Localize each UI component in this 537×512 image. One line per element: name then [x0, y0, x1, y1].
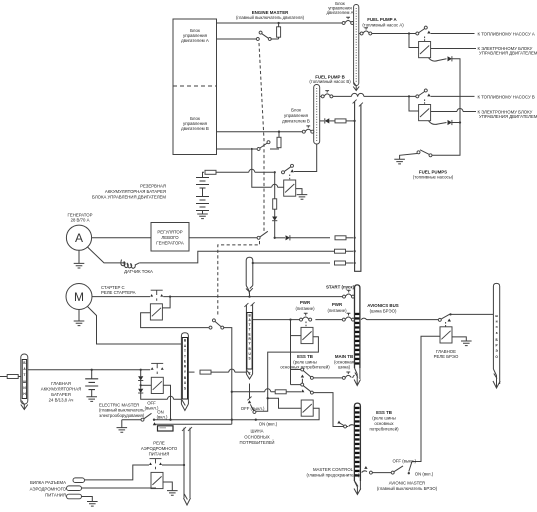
ground GND2 (reserve battery) [197, 214, 208, 219]
fuse F4 (vertical chain) [273, 172, 277, 216]
diode D6 [138, 370, 143, 381]
label PWR left [295, 300, 315, 311]
bus A bottom arrow [353, 83, 359, 91]
battery B1 reserve [196, 178, 209, 215]
svg-text:двигателем А: двигателем А [326, 10, 353, 15]
wire ECU-B out1 [217, 131, 303, 133]
wire V1 to ESS relay left [268, 398, 302, 408]
wire diode to row1 [274, 221, 276, 238]
diode D1 [448, 56, 452, 61]
svg-text:РЕЛЕ: РЕЛЕ [153, 441, 165, 446]
svg-text:РЕГУЛЯТОР: РЕГУЛЯТОР [157, 229, 182, 234]
svg-text:ESS TB: ESS TB [297, 354, 313, 359]
relay K6 (avionics relay) [440, 327, 452, 343]
svg-text:(вкл.): (вкл.) [157, 414, 168, 419]
wire contact to START switch [163, 296, 344, 298]
svg-text:ШИНА: ШИНА [251, 429, 264, 434]
svg-text:OFF (выкл.): OFF (выкл.) [392, 458, 416, 463]
label generator [68, 213, 93, 223]
label К ЭЛЕКТРОННОМУ БЛОКУ B [478, 109, 537, 118]
label СТАРТЕР С РЕЛЕ СТАРТЕРА [101, 285, 136, 295]
wire short bus to row3 [253, 262, 330, 264]
wire starter to ground [78, 310, 80, 322]
contact K7a (battery relay contact) [151, 363, 164, 374]
wire P1 to relay left [291, 335, 302, 337]
wire contact to tap [162, 464, 184, 466]
switch S3 fuel pump A feed [360, 28, 372, 35]
svg-text:(топливные насосы): (топливные насосы) [413, 175, 454, 180]
switch feed bracket [291, 320, 303, 385]
switch S19 (MAIN TB in) [342, 372, 354, 379]
svg-text:двигателем В: двигателем В [181, 126, 209, 131]
svg-text:ГЕНЕРАТОРА: ГЕНЕРАТОРА [156, 240, 184, 245]
hop over relay drop [168, 396, 174, 399]
diode D5 (pump B backfeed) [320, 118, 330, 123]
svg-text:БАТАРЕЯ: БАТАРЕЯ [51, 392, 70, 397]
junction node R4 [353, 262, 355, 264]
wire bar2 to PWR row [253, 319, 300, 321]
label bus A: Блок управления двигателем А [326, 1, 353, 15]
switch S18 (MAIN feed row) [301, 368, 314, 379]
plug pin 1 [73, 478, 85, 483]
junction battery tap [91, 369, 93, 371]
wire switch to fuse [271, 38, 279, 40]
svg-text:шина): шина) [338, 365, 351, 370]
ground GND7 (main battery) [86, 397, 97, 402]
wire relay right to ON wire [256, 408, 319, 419]
junction fuse top A [277, 22, 279, 24]
avionics bus (шина БРЭО) [493, 283, 500, 388]
junction node A1 [408, 32, 410, 34]
ON terminal bar2 [255, 419, 257, 421]
wire between diodes to relay [141, 384, 152, 386]
svg-text:ESS TB: ESS TB [376, 410, 392, 415]
switch S2 to bus A [342, 17, 354, 24]
svg-text:АЭРОДРОМНОГО: АЭРОДРОМНОГО [141, 446, 178, 451]
contact K8a (aerodrome relay contact) [149, 459, 162, 470]
wire diode B to vertical [452, 94, 460, 152]
switch S14 PWR left [300, 313, 312, 321]
svg-text:БЛОКА УПРАВЛЕНИЯ ДВИГАТЕЛЕМ: БЛОКА УПРАВЛЕНИЯ ДВИГАТЕЛЕМ [92, 194, 166, 199]
svg-text:(питание): (питание) [327, 308, 347, 313]
svg-text:28 В/70 А: 28 В/70 А [71, 218, 90, 223]
svg-text:К ТОПЛИВНОМУ НАСОСУ В: К ТОПЛИВНОМУ НАСОСУ В [478, 94, 535, 99]
fuse F11 (framed) [158, 426, 174, 431]
wire ECU-A out2 [217, 38, 258, 40]
wire relay K3 to ground [296, 189, 302, 195]
ground GND9 [167, 491, 178, 496]
label ГЛАВНОЕ РЕЛЕ БРЭО [434, 349, 459, 359]
MAIN TB bus (hatched) [354, 285, 360, 386]
relay K3 (engine B) [284, 180, 296, 196]
ground GND5 [74, 321, 85, 326]
wire to fuel pump B label [431, 95, 475, 97]
generator G1 [66, 225, 91, 250]
ground GND8 (electric master) [117, 420, 128, 433]
wire starter row [92, 296, 150, 298]
svg-text:24 В/13,8 Ач: 24 В/13,8 Ач [49, 397, 74, 402]
svg-text:ПИТАНИЯ: ПИТАНИЯ [45, 493, 66, 498]
label FUEL PUMPS [413, 170, 454, 180]
bus A (engine A bus) [354, 5, 359, 86]
svg-text:основных потребителей): основных потребителей) [280, 365, 330, 370]
svg-text:ГЛАВНАЯ: ГЛАВНАЯ [51, 381, 71, 386]
svg-text:ГЛАВНОЕ: ГЛАВНОЕ [436, 349, 456, 354]
wire ECU-A out1 [217, 22, 344, 24]
switch ENGINE MASTER S1 [256, 31, 271, 40]
plug pin 2 [67, 486, 82, 491]
fuse F2 [277, 137, 281, 147]
junction node R5 [353, 120, 355, 122]
regulator box U2 [151, 223, 189, 252]
svg-text:УПРАВЛЕНИЯ ДВИГАТЕЛЕМ: УПРАВЛЕНИЯ ДВИГАТЕЛЕМ [479, 114, 537, 119]
wire relay A to ECU label [431, 48, 476, 50]
label MAIN TB [334, 354, 355, 370]
wire ECU-B out2 [217, 148, 251, 150]
wire bus B bottom to switch [294, 144, 317, 172]
svg-text:AVIONIC MASTER: AVIONIC MASTER [389, 481, 425, 486]
junction node P1 [289, 318, 291, 320]
junction diode branch [140, 369, 142, 371]
wire relay K4 right to starter wire [162, 297, 170, 308]
svg-text:АККУМУЛЯТОРНАЯ: АККУМУЛЯТОРНАЯ [41, 386, 81, 391]
wire relay right to ground [452, 337, 466, 341]
wire PWR row mid [315, 319, 342, 321]
svg-text:управления: управления [284, 113, 309, 118]
wire battery bus to fuse row [188, 371, 194, 373]
label ВИЛКА РАЗЪЕМА [30, 480, 67, 498]
svg-text:(главный предохранитель): (главный предохранитель) [306, 472, 360, 477]
junction node C1 [251, 148, 253, 150]
wire relay right to V1 branch [256, 337, 318, 412]
fuse F6 row2 [335, 249, 346, 253]
wire battery to fuse F3 [203, 172, 205, 177]
junction node R2 [353, 237, 355, 239]
fuse F1 [277, 27, 281, 37]
wire drop to relay A [409, 34, 419, 48]
wire interlock to down run [223, 328, 232, 425]
junction bar2 feed [248, 295, 250, 297]
svg-text:двигателем В: двигателем В [282, 119, 310, 124]
svg-text:ПОТРЕБИТЕЛЕЙ: ПОТРЕБИТЕЛЕЙ [240, 440, 275, 445]
main distribution bus (rect bus) [353, 100, 363, 272]
relay K5 (PWR relay) [301, 327, 313, 343]
vertical wire from C1 down [252, 149, 284, 187]
hop over fuse chain [272, 184, 278, 187]
continuation lines (to loads) [182, 427, 192, 505]
wire generator to regulator [92, 237, 151, 239]
contact K4a (starter relay contact) [150, 290, 163, 301]
wire drop to relay B [409, 96, 419, 111]
junction aerodrome tap [183, 464, 185, 466]
ground GND6 [461, 341, 472, 346]
junction node C2 [274, 171, 276, 173]
wire relay K4 loop to interlock switch [141, 313, 209, 328]
label К ЭЛЕКТРОННОМУ БЛОКУ A [478, 46, 537, 55]
relay K8 (aerodrome) [151, 472, 163, 488]
label ENGINE MASTER [236, 10, 305, 20]
relay K7 (battery relay coil) [151, 377, 163, 393]
label ESS TB (right block) [369, 410, 399, 432]
wire relay B to diode [429, 121, 447, 125]
wire switch to avionics bus [451, 313, 494, 315]
svg-text:M: M [74, 290, 84, 304]
wire hot bus left + fuse F9 [0, 375, 21, 379]
wire AVIONICS out of MAIN TB [360, 318, 438, 320]
junction starter relay feed [169, 295, 171, 297]
dashed link to relay BREO [445, 322, 447, 327]
label OFF/ON electric master [145, 400, 168, 419]
main battery wire [28, 369, 150, 371]
fuse F3 [205, 170, 216, 174]
fuse F7 row3 [335, 261, 346, 265]
reserve battery label [92, 184, 166, 200]
switch S10 pump B run [282, 164, 295, 174]
svg-text:(топливный насос А): (топливный насос А) [362, 22, 404, 27]
svg-text:двигателем А: двигателем А [181, 38, 209, 43]
svg-text:(реле шины: (реле шины [293, 359, 316, 364]
svg-text:ПИТАНИЯ: ПИТАНИЯ [149, 452, 170, 457]
svg-text:A: A [75, 231, 83, 245]
diode D2 [448, 120, 452, 125]
wire EM ground to switch [122, 419, 141, 421]
diode D4 [286, 235, 290, 240]
plug pin 3 [67, 494, 82, 499]
switch S8 ECU-B to bus B [302, 126, 314, 133]
junction node R1 [274, 237, 276, 239]
svg-text:электрооборудования): электрооборудования) [99, 413, 145, 418]
svg-text:Блок: Блок [291, 107, 301, 112]
wire generator to ground [78, 250, 80, 263]
switch S17 ELECTRIC MASTER [141, 413, 155, 421]
dashed link L-shape [218, 241, 260, 317]
svg-text:(топливный насос В): (топливный насос В) [309, 79, 351, 84]
switch S4 (relay A contact) [416, 26, 431, 35]
hot bus (battery hot bus) [21, 354, 28, 410]
fuse F10 [200, 370, 211, 374]
wire contact left to plug pin1 [85, 465, 150, 480]
relay K1 (fuel pump A) [419, 37, 431, 58]
svg-text:АККУМУЛЯТОРНАЯ БАТАРЕЯ: АККУМУЛЯТОРНАЯ БАТАРЕЯ [105, 189, 166, 194]
switch S16 avionics master relay contact [438, 313, 451, 321]
AVIONICS BUS label [367, 303, 398, 313]
label ШИНА ОСНОВНЫХ ПОТРЕБИТЕЛЕЙ [240, 429, 275, 445]
dashed link ENGINE MASTER [259, 43, 264, 231]
svg-text:РЕЛЕ СТАРТЕРА: РЕЛЕ СТАРТЕРА [101, 290, 136, 295]
wire fuse stubs [278, 23, 280, 39]
wire plug pin2 to relay [82, 487, 156, 490]
wire relay B to ECU label with hop [431, 111, 476, 113]
wire starter diagonal to battery bus [88, 307, 182, 345]
svg-text:MAIN TB: MAIN TB [335, 354, 353, 359]
svg-text:PWR: PWR [300, 300, 311, 305]
engine control unit box U1 [173, 19, 217, 155]
ground GND1 [394, 159, 405, 164]
svg-text:(главный выключатель двигателя: (главный выключатель двигателя) [236, 15, 305, 20]
label PWR right [327, 302, 347, 313]
ground GND3 [297, 195, 308, 200]
svg-text:РЕЗЕРВНАЯ: РЕЗЕРВНАЯ [140, 184, 166, 189]
battery B2 main [85, 370, 98, 397]
junction relay drop [169, 419, 171, 421]
switch S20 (ESS row) [301, 383, 314, 394]
junction node B1 [408, 95, 410, 97]
link relay K3 to switch [289, 175, 291, 181]
wire diode chain to battery bus [141, 393, 182, 399]
wire fuse to bus [346, 262, 354, 264]
wire fuse to bar2 with hop [211, 371, 246, 373]
switch S21 (battery bus 2 tie) [248, 384, 256, 414]
svg-text:MASTER CONTROL: MASTER CONTROL [313, 467, 354, 472]
wire to fuel pump A label [431, 33, 475, 35]
svg-text:ВИЛКА РАЗЪЕМА: ВИЛКА РАЗЪЕМА [30, 480, 66, 485]
junction between diodes [140, 384, 142, 386]
svg-text:START (пуск): START (пуск) [326, 284, 355, 289]
hop over vertical C [249, 169, 255, 172]
current sensor L1 [121, 260, 139, 269]
hop over bus lines [352, 93, 358, 96]
switch S11 (regulator output) [257, 231, 268, 239]
wire row1 to diode [275, 237, 285, 239]
svg-text:(шина БРЭО): (шина БРЭО) [370, 309, 397, 314]
label РЕЛЕ АЭРОДРОМНОГО ПИТАНИЯ [141, 441, 178, 457]
junction V1 to ESS relay [267, 397, 269, 399]
relay K9 (ESS relay) [301, 400, 313, 416]
wire relay left long run to AVIONIC MASTER [409, 336, 440, 471]
wire fuse B top to out1 [278, 132, 280, 138]
svg-text:АЭРОДРОМНОГО: АЭРОДРОМНОГО [30, 486, 67, 491]
svg-text:ON (вкл.): ON (вкл.) [259, 422, 278, 427]
svg-text:PWR: PWR [332, 302, 343, 307]
diode D7 [138, 381, 143, 394]
switch S7 FUEL PUMPS [417, 150, 432, 157]
label FUEL PUMP A [362, 17, 404, 27]
svg-text:AVIONICS BUS: AVIONICS BUS [367, 303, 398, 308]
svg-text:ON (вкл.): ON (вкл.) [415, 472, 434, 477]
wire pin3 to ground [82, 497, 93, 502]
wire ON long run [154, 419, 256, 421]
junction node B2 [459, 121, 461, 123]
switch S12 (start interlock) [209, 319, 224, 329]
switch S6 (relay B contact) [416, 89, 431, 98]
wire relay to drop [163, 385, 170, 419]
switch S9 ECU-B out2 [257, 141, 270, 151]
fuse F8 (pump B backfeed) [329, 119, 354, 123]
wire fuse to pump B drop with hop [216, 171, 274, 173]
label ESS TB (left block) [280, 354, 330, 370]
label AVIONIC MASTER [377, 481, 438, 491]
wire bus A to pump A switch [359, 33, 362, 35]
bus B (fuel pump B bus) [314, 85, 320, 145]
dashed link PWR switch to relay [305, 322, 307, 328]
battery bus 2 [244, 302, 254, 379]
switch S5 fuel pump B feed [321, 91, 333, 98]
ground GND10 [87, 502, 98, 507]
relay K2 (fuel pump B) [419, 99, 431, 120]
svg-text:ЛЕВОГО: ЛЕВОГО [161, 235, 179, 240]
wire switch to ground [400, 154, 417, 160]
wire fuse to main bus [346, 237, 353, 239]
svg-text:(основная: (основная [334, 359, 355, 364]
short bus (avionics feed bar) [246, 257, 253, 293]
svg-text:РЕЛЕ БРЭО: РЕЛЕ БРЭО [434, 354, 459, 359]
label ГЛАВНАЯ АККУМУЛЯТОРНАЯ БАТАРЕЯ [41, 381, 81, 403]
label FUEL PUMP B [309, 75, 351, 85]
wire ESS row to down run [313, 393, 343, 427]
svg-text:(главный выключатель БРЭО): (главный выключатель БРЭО) [377, 486, 438, 491]
svg-text:OFF (выкл.): OFF (выкл.) [241, 406, 265, 411]
wire sensor to row2 [139, 251, 353, 263]
switch S13 START [343, 290, 355, 298]
junction node R3 [353, 250, 355, 252]
svg-text:(питание): (питание) [295, 306, 315, 311]
label MASTER CONTROL [306, 467, 360, 477]
svg-text:УПРАВЛЕНИЯ ДВИГАТЕЛЕМ: УПРАВЛЕНИЯ ДВИГАТЕЛЕМ [479, 51, 537, 56]
relay K4 (starter relay coil) [150, 304, 162, 320]
ground GND4 [74, 263, 85, 268]
svg-text:(реле шины: (реле шины [372, 416, 395, 421]
wire vertical to FUEL PUMPS switch [432, 152, 460, 155]
wire bus B to switch [320, 95, 322, 97]
stub above wire [249, 292, 251, 296]
wire row1 to fuse [290, 237, 330, 239]
wire relay A to diode [429, 58, 447, 61]
junction interlock drop [231, 419, 233, 421]
wire regulator out to switch [189, 237, 257, 239]
svg-text:ДАТЧИК ТОКА: ДАТЧИК ТОКА [124, 269, 153, 274]
fuse F5 row1 [335, 236, 346, 240]
starter M1 [66, 284, 92, 310]
svg-text:К ТОПЛИВНОМУ НАСОСУ А: К ТОПЛИВНОМУ НАСОСУ А [478, 31, 535, 36]
label Блок управления двигателем В (near bus B) [282, 107, 310, 123]
diode D3 (chain down) [272, 217, 277, 221]
wire generator to current sensor [88, 247, 126, 263]
wire to switch S9 [253, 148, 257, 150]
switch S22 (ESS TB in) [337, 421, 354, 428]
svg-text:ОСНОВНЫХ: ОСНОВНЫХ [244, 434, 270, 439]
switch S15 PWR right [342, 313, 354, 321]
ESS fuse row [231, 389, 301, 394]
wire MAIN feed row [313, 377, 342, 379]
label ELECTRIC MASTER [99, 403, 145, 418]
svg-text:основных: основных [374, 421, 394, 426]
svg-text:потребителей): потребителей) [369, 427, 399, 432]
marker and second wire [153, 422, 156, 425]
wire diode to vertical [452, 59, 460, 94]
battery bus 1 [181, 333, 188, 411]
wire pump A feed [372, 33, 416, 35]
ESS TB bus (hatched) [354, 403, 361, 494]
junction short bus [252, 262, 254, 264]
wire switch to fuse B [270, 148, 279, 150]
switch S23 AVIONIC MASTER [391, 466, 410, 474]
MASTER CONTROL row out of ESS TB [360, 466, 391, 474]
wire pump B feed with hops [333, 95, 416, 97]
wire relay to ground [163, 482, 172, 491]
